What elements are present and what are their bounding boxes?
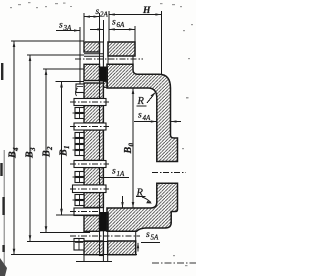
svg-text:1: 1 <box>63 146 71 150</box>
bolt boss 2 <box>70 123 109 130</box>
nut tab pair 1 <box>73 107 85 119</box>
svg-text:B: B <box>8 151 19 159</box>
top bolt hole edge lines <box>84 54 103 57</box>
svg-text:s: s <box>59 21 63 31</box>
svg-text:2: 2 <box>46 146 54 151</box>
svg-text:0: 0 <box>128 143 136 147</box>
dimension B1 <box>56 82 102 215</box>
body shape 2: lower block + web + bottom <box>107 183 178 231</box>
left protrusion bottom <box>74 239 84 251</box>
nut tab pair 4 <box>73 171 85 183</box>
svg-text:4A: 4A <box>143 114 152 122</box>
dimension s3A leader <box>56 27 80 84</box>
scan artifact: bottom-left corner <box>0 258 7 276</box>
right flange ring bottom <box>108 241 136 255</box>
svg-text:4: 4 <box>12 147 20 152</box>
left flange hatched band D <box>84 106 103 124</box>
svg-text:s: s <box>112 18 116 28</box>
svg-text:s: s <box>112 167 116 177</box>
svg-text:B: B <box>25 151 36 159</box>
body shape 1: top flange + outer wall + upper block <box>107 64 178 161</box>
scan artifact: top noise <box>10 2 193 266</box>
main axis centerline <box>152 262 196 264</box>
svg-text:B: B <box>123 147 134 155</box>
dimension B4 <box>11 41 137 255</box>
label B0 <box>123 143 136 155</box>
left flange hatched band A <box>84 42 100 52</box>
svg-text:R: R <box>137 96 145 107</box>
left flange hatched band C <box>84 83 103 99</box>
bolt boss 1 <box>70 99 109 106</box>
dimension B3 <box>27 55 107 241</box>
left flange hatched band G <box>84 193 103 208</box>
top bolt axis centerline <box>75 58 143 60</box>
right flange bolt hole (gap) <box>152 172 186 174</box>
svg-text:1A: 1A <box>117 170 126 178</box>
dimension s6A <box>109 11 135 42</box>
dimension s4A <box>134 121 181 123</box>
svg-text:B: B <box>42 150 53 158</box>
bottom bolt axis centerline <box>70 235 140 237</box>
svg-text:s: s <box>138 111 142 121</box>
nut tab pair 5 <box>73 194 85 206</box>
left flange hatched band B <box>84 64 100 80</box>
left flange hatched band E <box>84 130 103 161</box>
dimension B2 <box>40 69 90 232</box>
left flange hatched band F <box>84 168 103 186</box>
bolt boss 5 <box>70 208 100 216</box>
svg-text:3: 3 <box>29 147 37 152</box>
svg-text:5A: 5A <box>151 234 160 242</box>
bolt boss 3 <box>70 161 109 168</box>
right flange bolt hole top <box>108 56 133 64</box>
R top leader <box>147 94 155 104</box>
gasket bottom (black) <box>100 212 109 231</box>
flange plate 2 thin wall <box>100 42 104 256</box>
bottom lip lines <box>76 255 112 262</box>
bolt boss 4 <box>70 185 109 193</box>
svg-text:H: H <box>142 6 151 16</box>
gasket top (black) <box>100 67 109 82</box>
R bottom leader <box>142 197 151 203</box>
nut tab pair 3 <box>73 144 85 156</box>
dimension H <box>109 11 162 75</box>
dimension s2A <box>84 13 100 42</box>
nut tab pair 2 <box>73 132 85 144</box>
left flange hatched band I <box>84 241 103 255</box>
bottom bolt hole verticals <box>108 231 136 241</box>
s1A leader line <box>100 176 129 178</box>
scan artifact: left page edge <box>3 150 5 270</box>
svg-text:3A: 3A <box>63 24 73 32</box>
svg-text:s: s <box>146 230 150 240</box>
left protrusion top <box>75 84 84 96</box>
svg-text:s: s <box>96 7 100 17</box>
svg-text:B: B <box>59 149 70 157</box>
right flange ring top <box>108 42 135 56</box>
body lip under top gasket <box>103 82 107 88</box>
label B3 <box>25 147 38 159</box>
left flange hatched band H2 <box>84 216 100 232</box>
dimension B0 <box>132 88 134 208</box>
label B2 <box>42 146 55 158</box>
svg-text:2A: 2A <box>100 10 109 18</box>
svg-text:R: R <box>136 188 144 199</box>
dimension s5A arrows <box>122 196 124 208</box>
label B1 <box>59 146 72 158</box>
label B4 <box>8 147 21 159</box>
s1A wall pointer arrow <box>90 28 103 30</box>
svg-text:6A: 6A <box>117 21 126 29</box>
